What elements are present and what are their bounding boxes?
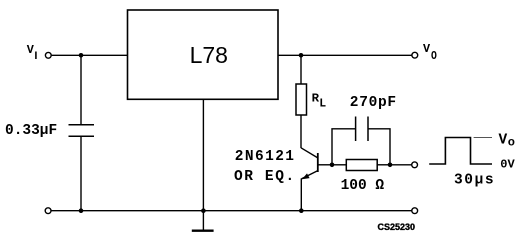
svg-text:L78: L78 [190,42,228,68]
junction output node [299,53,304,58]
wire base to node B [318,164,332,166]
svg-text:0V: 0V [500,158,515,172]
wire input node down to C1 [80,55,82,125]
wire C2 right side down to node C [368,129,390,165]
regulator U1 L78 box [128,10,279,99]
wire C1 to ground rail [80,136,82,211]
terminal ground left [45,208,51,214]
svg-text:270pF: 270pF [350,95,397,111]
svg-text:L: L [319,98,326,111]
svg-text:2N6121: 2N6121 [235,149,296,165]
node B junction [330,163,335,168]
wire emitter to ground rail [300,178,302,210]
svg-text:V: V [423,42,431,56]
ground [192,229,214,231]
wire output node to RL [300,55,302,84]
junction C1 to rail [79,208,84,213]
wire VI to regulator input [52,54,128,56]
transistor Q1 base bar [317,153,319,172]
svg-text:O: O [431,50,437,63]
terminal pulse output [412,162,418,168]
wire node C to pulse terminal [390,164,412,166]
terminal VI [45,52,51,58]
capacitor C2 270pF [355,117,357,142]
wire regulator ground pin [202,99,204,230]
svg-text:CS25230: CS25230 [378,222,416,232]
svg-text:V: V [499,132,508,148]
wire RL to collector [300,115,302,148]
terminal VO [412,52,418,58]
wire node B up to C2 [332,129,356,165]
wire node B to R2 [332,164,346,166]
svg-text:100 Ω: 100 Ω [341,178,385,194]
svg-text:0.33µF: 0.33µF [5,123,57,139]
node C junction [388,163,393,168]
pulse VO level dash [474,137,492,139]
svg-text:o: o [508,135,515,149]
resistor RL [296,84,307,115]
capacitor C1 0.33uF [69,124,95,126]
pulse waveform [429,138,492,165]
wire regulator output to VO [278,54,412,56]
junction input node [79,53,84,58]
terminal ground right [412,208,418,214]
svg-text:30µs: 30µs [454,172,495,188]
svg-text:I: I [34,50,37,62]
svg-text:OR EQ.: OR EQ. [234,169,296,185]
junction emitter to rail [299,208,304,213]
resistor R2 100ohm [346,160,377,171]
transistor Q1 collector lead [301,148,318,158]
transistor Q1 emitter lead with arrow [302,171,318,179]
wire R2 to node C [377,164,390,166]
ground rail [51,210,411,212]
junction regulator ground pin [201,208,206,213]
